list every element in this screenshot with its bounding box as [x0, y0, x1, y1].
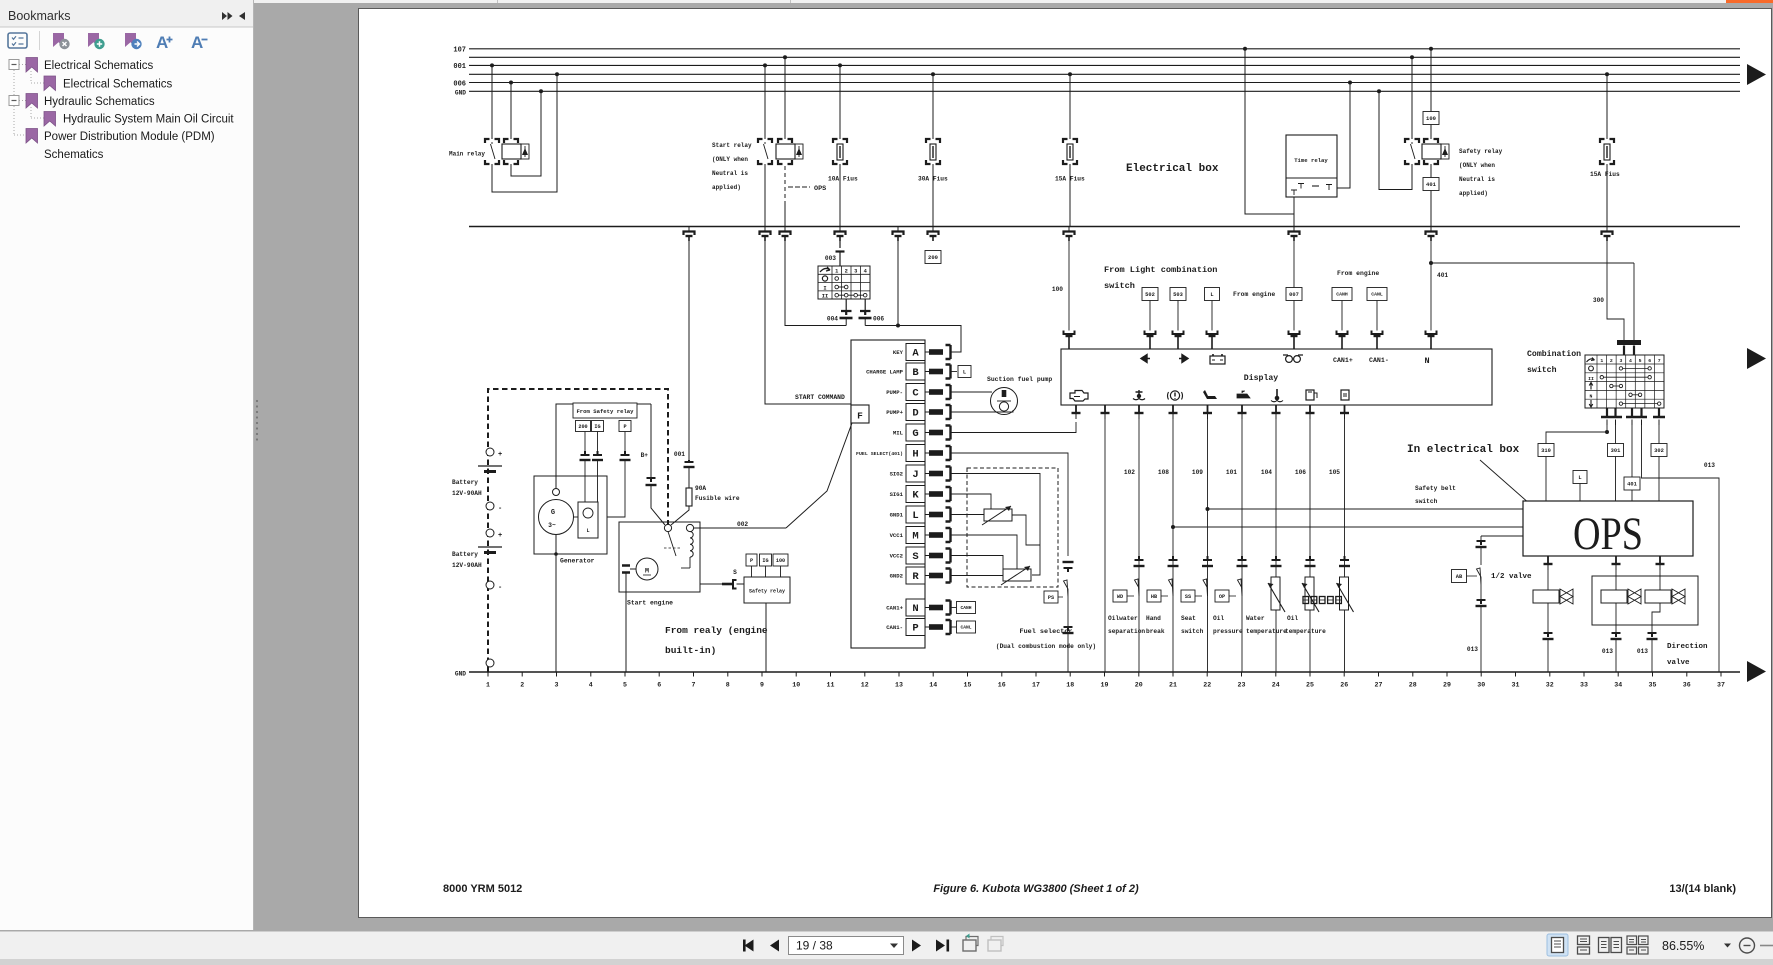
starter solenoid coil: [690, 532, 693, 558]
svg-text:A: A: [156, 33, 168, 52]
svg-text:From Safety relay: From Safety relay: [576, 408, 634, 415]
status bar: continuous facing layout: [1627, 936, 1637, 945]
svg-text:M: M: [645, 568, 649, 575]
svg-text:013: 013: [1637, 648, 1648, 655]
grid reference numbers 1-37: [486, 672, 1725, 689]
arrow continuation right (top): [1747, 64, 1766, 85]
node P / IG / 100 boxes: [746, 554, 757, 566]
wire N drop with 401 branch: [1430, 241, 1432, 331]
node CANH box at N: [952, 607, 957, 609]
svg-text:MIL: MIL: [893, 430, 904, 437]
svg-text:S: S: [733, 569, 737, 576]
svg-text:Neutral is: Neutral is: [712, 170, 748, 177]
wire pin M into selector: [952, 535, 1018, 569]
svg-text:401: 401: [1426, 181, 1437, 188]
wire START COMMAND from bus to F: [765, 241, 851, 404]
connector U1 main block: [851, 340, 925, 648]
wire start relay contact feed from 001: [763, 63, 767, 67]
node 302 box: [1658, 425, 1660, 444]
svg-text:HB: HB: [1151, 594, 1157, 600]
wire handbrake line to OPS: [1171, 525, 1175, 529]
svg-text:10: 10: [792, 682, 800, 689]
svg-text:K: K: [912, 490, 919, 502]
status bar: zoom out: [1740, 938, 1755, 953]
svg-text:1: 1: [1600, 358, 1603, 364]
svg-text:013: 013: [1602, 648, 1613, 655]
svg-text:valve: valve: [1667, 659, 1690, 667]
node OPS callout: [788, 186, 810, 188]
wires 200/IG to regulator, P to regulator: [584, 460, 586, 502]
svg-text:GND1: GND1: [890, 512, 904, 519]
relay K3 contact: [1405, 139, 1410, 143]
icon seat: [1203, 390, 1217, 399]
svg-text:+: +: [498, 532, 502, 540]
svg-text:15A Fius: 15A Fius: [1055, 176, 1085, 183]
svg-text:30: 30: [1477, 682, 1485, 689]
svg-text:013: 013: [1467, 646, 1478, 653]
wire time relay right feed from 006: [1348, 81, 1352, 85]
relay K3 coil: [1430, 125, 1432, 140]
wire GND bottom bus: [469, 671, 1740, 673]
wire 013 right drop: [1642, 425, 1720, 672]
wire pin K into selector: [952, 494, 992, 509]
wire bus 107: [469, 48, 1740, 50]
wire bus (unlabeled 2): [469, 56, 1740, 58]
svg-text:200: 200: [928, 254, 938, 261]
wire 002 output: [694, 527, 786, 529]
svg-text:P: P: [912, 623, 918, 635]
status bar: zoom slider track: [1760, 945, 1773, 947]
wire start relay contact to mid bus: [764, 164, 766, 227]
wire 300 to combination switch: [1607, 241, 1624, 341]
sensor RT1 water temperature: [1271, 577, 1280, 610]
svg-text:13: 13: [895, 682, 903, 689]
wire generator to GND: [555, 535, 557, 673]
node 301 box: [1615, 425, 1617, 444]
svg-text:SS: SS: [1185, 594, 1191, 600]
motor M: [636, 558, 658, 580]
tree row 2: Electrical Schematics (child): [44, 76, 56, 91]
connector pin under display x=1344.5: [1344, 405, 1346, 413]
svg-text:106: 106: [1295, 469, 1306, 476]
pin B CHARGE LAMP: [906, 363, 925, 380]
svg-text:Oilwater: Oilwater: [1108, 615, 1138, 622]
svg-text:19: 19: [1101, 682, 1109, 689]
starter solenoid contact: [668, 532, 676, 557]
icon coolant temp: [1136, 390, 1143, 397]
svg-text:GND2: GND2: [890, 573, 904, 580]
wire pin S into selector: [952, 556, 1004, 570]
connector pin sensor x=1344.5: [1340, 556, 1349, 560]
svg-text:001: 001: [674, 451, 685, 458]
svg-text:+: +: [498, 451, 502, 459]
svg-text:29: 29: [1443, 682, 1451, 689]
svg-text:CANL: CANL: [1371, 292, 1383, 298]
svg-text:Safety belt: Safety belt: [1415, 485, 1456, 492]
svg-text:WD: WD: [1117, 594, 1123, 600]
svg-text:26: 26: [1340, 682, 1348, 689]
node 100 label box: [1429, 47, 1433, 51]
connector pin sensor x=1207.5: [1203, 556, 1212, 560]
pins under 200/IG/P: [581, 451, 590, 455]
svg-text:36: 36: [1683, 682, 1691, 689]
wire main relay coil feed from 006: [509, 81, 513, 85]
pin G MIL: [906, 424, 925, 441]
svg-text:II: II: [1588, 376, 1594, 382]
svg-text:20: 20: [1135, 682, 1143, 689]
fuse F1 10A: [838, 63, 842, 67]
svg-text:1: 1: [835, 269, 838, 275]
pin D PUMP+: [906, 404, 925, 421]
svg-text:From engine: From engine: [1233, 291, 1275, 298]
toolbar: add bookmark: [88, 33, 99, 47]
svg-text:11: 11: [827, 682, 835, 689]
svg-text:23: 23: [1238, 682, 1246, 689]
icon fuel pump: [1341, 390, 1349, 400]
wire main relay coil to GND loop: [511, 91, 541, 176]
svg-text:Bookmarks: Bookmarks: [8, 9, 71, 23]
wire time relay feed from 107: [1243, 47, 1247, 51]
wire PS to GND: [1067, 597, 1069, 627]
svg-text:28: 28: [1409, 682, 1417, 689]
wire comb-1 to 310: [1606, 425, 1608, 432]
node L box (OPS): [1573, 471, 1587, 484]
svg-text:temperature: temperature: [1285, 628, 1326, 635]
status bar: continuous layout: [1578, 936, 1590, 945]
svg-text:90A: 90A: [695, 485, 706, 492]
node 502 box: [1142, 288, 1158, 301]
connector pin at mid bus x=689: [688, 227, 690, 231]
connector pin at mid bus x=1069: [1068, 227, 1070, 231]
wire AB branch from OPS: [1481, 535, 1523, 537]
svg-text:Generator: Generator: [560, 558, 595, 565]
potentiometer RV2: [1003, 569, 1031, 581]
battery B1 plates: [478, 465, 502, 467]
svg-text:R: R: [912, 571, 919, 583]
wire main relay contact feed from 001: [490, 63, 494, 67]
svg-text:H: H: [912, 449, 918, 461]
svg-text:4: 4: [589, 682, 593, 689]
svg-text:Electrical Schematics: Electrical Schematics: [44, 60, 154, 72]
battery bottom terminal at GND: [486, 659, 494, 667]
wire sensor column x=1207.5: [1207, 419, 1209, 672]
wire 007 drop (bus to box): [1293, 241, 1295, 288]
svg-text:004: 004: [827, 316, 838, 323]
node 401 label box below coil: [1430, 164, 1432, 178]
relay U2 Time relay box: [1286, 135, 1337, 197]
wire 100 drop to display: [1068, 241, 1070, 331]
battery B2 plates: [478, 546, 502, 548]
svg-text:CAN1+: CAN1+: [886, 605, 903, 612]
svg-text:17: 17: [1032, 682, 1040, 689]
switch SS seat switch: [1181, 590, 1195, 602]
svg-text:break: break: [1146, 628, 1165, 635]
svg-text:CANH: CANH: [960, 605, 971, 611]
svg-text:GND: GND: [455, 671, 466, 678]
wire bus 001: [469, 64, 1740, 66]
switch OP oil pressure: [1215, 590, 1229, 602]
wire B+ into starter: [651, 485, 665, 525]
wire generator B+ top: [556, 404, 651, 489]
svg-text:PUMP+: PUMP+: [886, 409, 903, 416]
svg-text:9: 9: [760, 682, 764, 689]
toolbar: goto bookmark: [125, 33, 136, 47]
valve V2: [1615, 570, 1617, 590]
potentiometer RV1: [984, 509, 1012, 521]
svg-text:Neutral is: Neutral is: [1459, 176, 1495, 183]
svg-text:001: 001: [453, 63, 466, 71]
relay K2 contact: [758, 139, 763, 143]
svg-text:L: L: [1210, 292, 1213, 298]
switch S1 key switch table: [818, 266, 870, 300]
svg-text:Figure 6. Kubota WG3800 (Sheet: Figure 6. Kubota WG3800 (Sheet 1 of 2): [933, 883, 1139, 895]
svg-text:Electrical Schematics: Electrical Schematics: [63, 79, 173, 91]
icon arrow right: [1179, 355, 1188, 363]
pin N CAN1+: [906, 599, 925, 616]
svg-text:3: 3: [555, 682, 559, 689]
svg-text:21: 21: [1169, 682, 1177, 689]
svg-text:CANH: CANH: [1336, 292, 1348, 298]
wire label box x=1294 to display: [1293, 301, 1295, 331]
svg-text:31: 31: [1512, 682, 1520, 689]
svg-text:CAN1-: CAN1-: [886, 624, 903, 631]
svg-text:N: N: [1590, 393, 1593, 399]
connector pin under display x=1076: [1075, 405, 1077, 413]
status bar: last page button: [936, 940, 945, 952]
svg-text:33: 33: [1580, 682, 1588, 689]
regulator box: [578, 502, 598, 538]
svg-text:2: 2: [1610, 358, 1613, 364]
connector pin sensor x=1139: [1135, 556, 1144, 560]
svg-text:200: 200: [578, 424, 587, 430]
svg-text:switch: switch: [1104, 281, 1135, 291]
connector pin sensor x=1242: [1238, 556, 1247, 560]
svg-text:From engine: From engine: [1337, 270, 1379, 277]
svg-text:In electrical box: In electrical box: [1407, 444, 1520, 456]
wire x898 drop: [897, 241, 899, 326]
connector pin sensor x=1276: [1272, 556, 1281, 560]
fuel selector dashed box: [967, 468, 1058, 587]
svg-text:N: N: [912, 603, 918, 615]
icon engine check: [1070, 391, 1088, 402]
relay K2 coil: [778, 139, 783, 143]
icon fuel level: [1306, 390, 1314, 400]
switch S2 combination switch table: [1585, 355, 1664, 408]
svg-text:10A Fius: 10A Fius: [828, 176, 858, 183]
status bar: previous view icon: [963, 940, 976, 951]
wire label box x=1150 to display: [1149, 301, 1151, 331]
svg-text:5: 5: [623, 682, 627, 689]
node 200 / IG / P boxes: [576, 421, 591, 432]
wire label box x=1342 to display: [1341, 301, 1343, 331]
svg-text:J: J: [912, 469, 918, 481]
sidebar header: [0, 0, 253, 27]
svg-text:C: C: [912, 388, 919, 400]
connector pin at mid bus x=933: [932, 227, 934, 231]
connector pin under display x=1242: [1241, 405, 1243, 413]
switch AB 1/2 valve: [1477, 568, 1482, 585]
svg-text:IG: IG: [594, 424, 600, 430]
svg-text:Safety relay: Safety relay: [749, 589, 785, 595]
sidebar toolbar: [8, 33, 27, 48]
svg-text:Main relay: Main relay: [449, 151, 485, 158]
svg-text:FUEL SELECT(401): FUEL SELECT(401): [856, 451, 903, 457]
combination switch bottom stubs/pins: [1606, 408, 1608, 417]
svg-text:Fusible wire: Fusible wire: [695, 495, 740, 502]
svg-text:A: A: [912, 348, 919, 360]
svg-text:401: 401: [1627, 481, 1637, 487]
status bar: next page button: [912, 940, 921, 952]
wire safety relay contact feed: [1410, 55, 1414, 59]
From Safety relay label box: [573, 403, 637, 418]
connector pin at mid bus x=765: [764, 227, 766, 231]
connector pin at mid bus x=785: [784, 227, 786, 231]
svg-text:35: 35: [1649, 682, 1657, 689]
svg-text:503: 503: [1173, 292, 1183, 298]
tree row 3: Hydraulic Schematics (parent): [9, 96, 19, 106]
pin R GND2: [906, 567, 925, 584]
wire pin R into selector: [952, 575, 1004, 577]
wire pin C to pump: [952, 391, 993, 393]
battery B1 terminal -: [486, 502, 494, 510]
svg-text:(Dual combustion mode only): (Dual combustion mode only): [996, 643, 1096, 650]
svg-text:temperature: temperature: [1246, 628, 1287, 635]
time relay internal contacts: [1291, 184, 1304, 196]
svg-text:GND: GND: [455, 90, 466, 97]
svg-text:switch: switch: [1415, 498, 1438, 505]
svg-text:16: 16: [998, 682, 1006, 689]
connector pin under display x=1310: [1309, 405, 1311, 413]
wire sensor column x=1344.5: [1344, 419, 1346, 672]
wire sensor column x=1310: [1309, 419, 1311, 672]
svg-text:G: G: [551, 509, 555, 517]
icon water temp: [1276, 389, 1278, 397]
svg-text:Start relay: Start relay: [712, 142, 752, 149]
dashed harness box (battery/generator): [488, 389, 668, 672]
wire time relay bottom to mid bus: [1293, 197, 1295, 227]
controller OPS box: [1523, 501, 1693, 556]
wire sensor column x=1173: [1172, 419, 1174, 672]
wire start relay coil feed from bus2: [783, 55, 787, 59]
svg-text:12: 12: [861, 682, 869, 689]
wire main relay contact to line4 loop: [492, 74, 557, 192]
svg-text:From realy (engine: From realy (engine: [665, 625, 768, 636]
svg-text:108: 108: [1158, 469, 1169, 476]
wire sensor column x=1139: [1138, 419, 1140, 672]
pin P CAN1-: [906, 619, 925, 636]
motor feed pins: [622, 566, 630, 573]
svg-text:IG: IG: [762, 558, 768, 564]
svg-text:VCC2: VCC2: [890, 553, 904, 560]
svg-text:301: 301: [1611, 448, 1621, 454]
svg-text:86.55%: 86.55%: [1662, 939, 1704, 953]
fuse F2 30A: [931, 72, 935, 76]
pin L GND1: [906, 506, 925, 523]
svg-text:27: 27: [1375, 682, 1383, 689]
node F box: [851, 405, 869, 423]
svg-text:Schematics: Schematics: [44, 149, 104, 161]
status bar: page combobox 19 / 38: [789, 937, 904, 955]
callout line to OPS: [1480, 460, 1539, 512]
svg-text:3: 3: [854, 269, 857, 275]
svg-text:PS: PS: [1048, 595, 1054, 601]
svg-text:VCC1: VCC1: [890, 532, 904, 539]
wire pot1 to inner riser: [1012, 515, 1040, 545]
display module box: [1061, 349, 1492, 405]
generator box: [534, 476, 607, 554]
node 310 box: [1538, 444, 1554, 457]
svg-text:Hand: Hand: [1146, 615, 1161, 622]
connector pin at mid bus x=898: [897, 227, 899, 231]
svg-text:12V-90AH: 12V-90AH: [452, 490, 482, 497]
node CANL box: [1367, 288, 1387, 301]
connector pin under display x=1173: [1172, 405, 1174, 413]
svg-text:15: 15: [964, 682, 972, 689]
wire 002 diagonal to F: [786, 423, 852, 528]
svg-text:switch: switch: [1527, 365, 1557, 375]
combination switch top connector: [1617, 340, 1641, 345]
svg-text:M: M: [912, 531, 918, 543]
svg-text:CANL: CANL: [960, 625, 971, 631]
svg-text:14: 14: [929, 682, 937, 689]
svg-text:Hydraulic Schematics: Hydraulic Schematics: [44, 96, 155, 108]
sensor RT3 fuel temperature (CJK label): [1340, 577, 1349, 610]
svg-text:switch: switch: [1181, 628, 1204, 635]
node CANH box: [1332, 288, 1352, 301]
valve V1 (1/2 valve solenoid): [1547, 570, 1549, 590]
svg-text:CHARGE LAMP: CHARGE LAMP: [866, 369, 904, 376]
svg-text:Hydraulic System Main Oil Circ: Hydraulic System Main Oil Circuit: [63, 114, 234, 126]
wire starter to GND: [625, 573, 627, 672]
svg-text:6: 6: [1648, 358, 1651, 364]
wire 90A into starter: [671, 506, 689, 525]
status bar: facing layout: [1599, 938, 1610, 953]
svg-text:separation: separation: [1108, 628, 1145, 635]
wire pin B to L box: [952, 371, 958, 373]
svg-text:Start engine: Start engine: [627, 600, 673, 607]
svg-text:100: 100: [776, 558, 785, 564]
wire bus (unlabeled 4): [469, 73, 1740, 75]
node L box: [1205, 288, 1220, 301]
svg-text:B+: B+: [641, 452, 649, 459]
svg-text:502: 502: [1145, 292, 1155, 298]
svg-text:003: 003: [825, 255, 836, 262]
svg-text:Water: Water: [1246, 615, 1265, 622]
svg-text:401: 401: [1437, 272, 1448, 279]
connector pin at mid bus x=1607: [1606, 227, 1608, 231]
svg-text:19 / 38: 19 / 38: [796, 939, 833, 953]
fuse F4 15A right: [1605, 72, 1609, 76]
svg-text:109: 109: [1192, 469, 1203, 476]
svg-text:D: D: [912, 408, 918, 420]
connector pin OPS out1: [1547, 556, 1549, 564]
direction valve box: [1592, 576, 1698, 625]
pin S VCC2: [906, 547, 925, 564]
connector pin under display x=1139: [1138, 405, 1140, 413]
svg-text:(ONLY when: (ONLY when: [1459, 162, 1495, 169]
pin C PUMP-: [906, 384, 925, 401]
svg-text:B: B: [912, 367, 919, 379]
svg-text:Electrical box: Electrical box: [1126, 163, 1219, 175]
svg-text:007: 007: [1289, 292, 1299, 298]
svg-text:KEY: KEY: [893, 349, 904, 356]
connector pin at mid bus x=1294: [1293, 227, 1295, 231]
svg-text:F: F: [857, 411, 863, 422]
icon lamp OO: [1286, 356, 1293, 363]
svg-text:OP: OP: [1219, 594, 1225, 600]
wire sensor column x=1105: [1104, 419, 1106, 672]
svg-text:built-in): built-in): [665, 645, 716, 656]
